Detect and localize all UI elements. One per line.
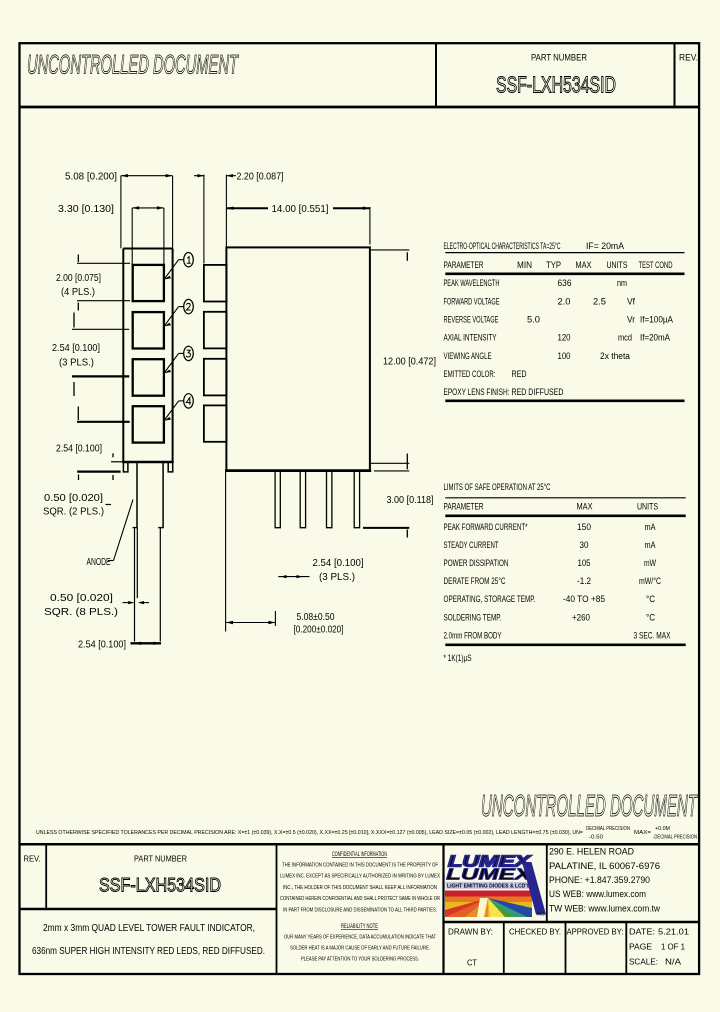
- svg-text:PALATINE, IL 60067-6976: PALATINE, IL 60067-6976: [549, 861, 660, 872]
- svg-text:APPROVED BY:: APPROVED BY:: [567, 927, 624, 937]
- svg-text:MIN: MIN: [517, 260, 532, 270]
- svg-text:ELECTRO-OPTICAL CHARACTERISTIC: ELECTRO-OPTICAL CHARACTERISTICS TA=25°C: [444, 241, 561, 251]
- svg-text:0.50 [0.020]: 0.50 [0.020]: [50, 593, 113, 604]
- svg-text:N/A: N/A: [665, 957, 681, 967]
- dimension 2.54 3 PLS side: [278, 558, 363, 583]
- dimension 2.54 [0.100] 3 PLS left: [52, 313, 129, 397]
- svg-text:290 E. HELEN ROAD: 290 E. HELEN ROAD: [549, 847, 634, 858]
- svg-text:UNITS: UNITS: [607, 260, 628, 270]
- svg-text:SCALE:: SCALE:: [629, 957, 658, 967]
- svg-text:636nm SUPER HIGH INTENSITY RED: 636nm SUPER HIGH INTENSITY RED LEDS, RED…: [32, 946, 265, 957]
- svg-text:2x theta: 2x theta: [600, 351, 630, 361]
- dimension 2.00 [0.075] 4 PLS: [56, 255, 130, 311]
- dimension 5.08 [0.200]: [65, 172, 173, 249]
- balloon 1: [164, 253, 193, 280]
- front lead narrow left: [135, 528, 138, 642]
- svg-text:2.0mm FROM BODY: 2.0mm FROM BODY: [444, 630, 502, 640]
- dimension 5.08 +/- 0.50: [226, 472, 344, 636]
- svg-text:3 SEC. MAX: 3 SEC. MAX: [634, 630, 671, 640]
- side lead 3: [327, 471, 332, 528]
- svg-text:(4 PLS.): (4 PLS.): [61, 287, 95, 298]
- svg-text:105: 105: [578, 558, 591, 568]
- svg-text:LUMEX INC. EXCEPT AS SPECIFIC: LUMEX INC. EXCEPT AS SPECIFICALLY AUTHOR…: [280, 873, 440, 879]
- svg-text:UNCONTROLLED DOCUMENT: UNCONTROLLED DOCUMENT: [27, 50, 239, 80]
- svg-text:+260: +260: [572, 612, 590, 622]
- side lens bump 3: [204, 359, 227, 396]
- svg-text:12.00 [0.472]: 12.00 [0.472]: [383, 357, 436, 368]
- svg-text:EPOXY LENS FINISH:: EPOXY LENS FINISH:: [444, 387, 510, 397]
- svg-text:5.21.01: 5.21.01: [658, 927, 689, 937]
- svg-text:TEST COND: TEST COND: [639, 260, 673, 270]
- svg-text:30: 30: [580, 540, 589, 550]
- drawn by cell: [448, 927, 493, 968]
- dimension 0.50 SQR 8 PLS: [44, 593, 149, 618]
- svg-text:AXIAL INTENSITY: AXIAL INTENSITY: [444, 333, 497, 343]
- svg-text:2mm x 3mm QUAD LEVEL TOWER FAU: 2mm x 3mm QUAD LEVEL TOWER FAULT INDICAT…: [43, 923, 255, 934]
- front view body: [122, 249, 174, 463]
- dimension 3.00 [0.118]: [363, 462, 434, 538]
- svg-text:LIGHT EMITTING DIODES & LCD'S: LIGHT EMITTING DIODES & LCD'S: [447, 884, 531, 890]
- svg-text:120: 120: [558, 333, 571, 343]
- svg-text:RELIABILITY NOTE: RELIABILITY NOTE: [341, 924, 378, 930]
- part number box: [436, 43, 698, 107]
- dimension 2.54 [0.100] lower left: [56, 407, 130, 481]
- address block: [549, 847, 660, 915]
- uncontrolled document watermark top: [27, 50, 239, 80]
- svg-text:[0.200±0.020]: [0.200±0.020]: [294, 625, 344, 636]
- svg-text:mA: mA: [645, 540, 656, 550]
- svg-text:STEADY CURRENT: STEADY CURRENT: [444, 540, 499, 550]
- reliability note: [284, 924, 437, 962]
- side lead 2: [300, 471, 305, 528]
- svg-text:3.30 [0.130]: 3.30 [0.130]: [58, 204, 114, 215]
- svg-text:0.50 [0.020]: 0.50 [0.020]: [44, 493, 103, 504]
- svg-text:2.54 [0.100]: 2.54 [0.100]: [56, 444, 102, 455]
- label 0.50 SQR 2 PLS: [43, 493, 111, 518]
- svg-text:PHONE: +1.847.359.2790: PHONE: +1.847.359.2790: [549, 875, 650, 886]
- svg-text:LIMITS OF SAFE OPERATION AT 25: LIMITS OF SAFE OPERATION AT 25°C: [444, 482, 551, 492]
- svg-text:5.0: 5.0: [527, 315, 540, 325]
- svg-text:PEAK FORWARD CURRENT*: PEAK FORWARD CURRENT*: [444, 522, 528, 532]
- svg-text:PLEASE PAY ATTENTION TO YOUR S: PLEASE PAY ATTENTION TO YOUR SOLDERING P…: [301, 956, 419, 962]
- svg-text:RED DIFFUSED: RED DIFFUSED: [512, 387, 564, 397]
- svg-text:1 OF 1: 1 OF 1: [661, 942, 685, 952]
- svg-text:UNCONTROLLED DOCUMENT: UNCONTROLLED DOCUMENT: [481, 788, 698, 823]
- svg-text:3.00 [0.118]: 3.00 [0.118]: [387, 495, 434, 506]
- lumex logo: [445, 854, 546, 918]
- table electro-optical characteristics: [444, 241, 685, 401]
- front view standoff tab left: [123, 462, 128, 472]
- svg-text:IN PART FROM DISCLOSURE AND DI: IN PART FROM DISCLOSURE AND DISSEMINATIO…: [283, 907, 437, 913]
- table limits of safe operation: [444, 482, 686, 663]
- svg-text:-40 TO +85: -40 TO +85: [563, 594, 605, 604]
- svg-text:REV.: REV.: [679, 53, 698, 63]
- front lead narrow right: [159, 528, 161, 642]
- svg-text:INC.: INC.: [537, 912, 546, 917]
- svg-text:OUR MANY YEARS OF EXPERIENCE,: OUR MANY YEARS OF EXPERIENCE, DATA ACCUM…: [284, 934, 437, 940]
- title block grid: [19, 844, 700, 974]
- svg-text:2.54 [0.100]: 2.54 [0.100]: [78, 640, 126, 651]
- svg-text:5.08 [0.200]: 5.08 [0.200]: [65, 172, 117, 183]
- dimension 14.00 [0.551]: [226, 204, 370, 245]
- confidential information note: [280, 852, 440, 913]
- svg-text:-0.50: -0.50: [589, 835, 603, 841]
- svg-text:CHECKED BY.: CHECKED BY.: [509, 927, 561, 937]
- svg-text:SSF-LXH534SID: SSF-LXH534SID: [496, 72, 616, 98]
- svg-text:THE INFORMATION CONTAINED IN T: THE INFORMATION CONTAINED IN THIS DOCUME…: [282, 862, 439, 868]
- svg-text:MAX: MAX: [577, 502, 593, 512]
- svg-text:2.00 [0.075]: 2.00 [0.075]: [56, 273, 101, 284]
- svg-text:PART NUMBER: PART NUMBER: [134, 854, 187, 864]
- svg-text:RED: RED: [512, 369, 527, 379]
- svg-text:PARAMETER: PARAMETER: [444, 260, 484, 270]
- description cell: [32, 923, 265, 957]
- svg-text:PAGE: PAGE: [629, 942, 652, 952]
- balloon 3: [164, 346, 193, 373]
- svg-text:mW/°C: mW/°C: [639, 576, 661, 586]
- side view housing: [225, 247, 371, 470]
- dimension 3.30 [0.130]: [58, 204, 164, 265]
- svg-text:PARAMETER: PARAMETER: [444, 502, 484, 512]
- LED window 3: [133, 359, 164, 396]
- svg-text:-1.2: -1.2: [577, 576, 591, 586]
- svg-text:mcd: mcd: [618, 333, 632, 343]
- LED window 4: [133, 406, 164, 442]
- balloon 2: [164, 299, 193, 326]
- svg-text:ANODE: ANODE: [87, 557, 111, 568]
- svg-text:TW WEB: www.lumex.com.tw: TW WEB: www.lumex.com.tw: [549, 903, 660, 914]
- side lens bump 1: [204, 265, 227, 302]
- svg-text:* 1K(1)µS: * 1K(1)µS: [444, 653, 472, 663]
- anode label and leader: [87, 500, 134, 568]
- svg-text:2.5: 2.5: [593, 296, 606, 306]
- svg-text:DERATE FROM 25°C: DERATE FROM 25°C: [444, 576, 506, 586]
- svg-text:°C: °C: [646, 612, 655, 622]
- side lead 4: [354, 471, 359, 528]
- svg-text:14.00 [0.551]: 14.00 [0.551]: [272, 204, 329, 215]
- svg-text:REV.: REV.: [24, 854, 41, 864]
- svg-text:POWER DISSIPATION: POWER DISSIPATION: [444, 558, 509, 568]
- svg-text:FORWARD VOLTAGE: FORWARD VOLTAGE: [444, 296, 500, 306]
- svg-text:DRAWN BY:: DRAWN BY:: [448, 927, 493, 937]
- svg-text:US WEB: www.lumex.com: US WEB: www.lumex.com: [549, 889, 646, 900]
- svg-text:mW: mW: [644, 558, 656, 568]
- svg-text:MAX: MAX: [576, 260, 592, 270]
- svg-text:nm: nm: [617, 278, 627, 288]
- svg-text:CT: CT: [467, 958, 477, 968]
- svg-text:MAX=: MAX=: [634, 830, 651, 836]
- svg-text:mA: mA: [645, 522, 656, 532]
- svg-text:IF= 20mA: IF= 20mA: [586, 241, 624, 251]
- svg-text:VIEWING ANGLE: VIEWING ANGLE: [444, 351, 492, 361]
- svg-text:+0.0M: +0.0M: [655, 826, 670, 832]
- svg-text:150: 150: [577, 522, 591, 532]
- svg-text:UNLESS OTHERWISE SPECIFIED TOL: UNLESS OTHERWISE SPECIFIED TOLERANCES PE…: [36, 830, 583, 836]
- svg-text:°C: °C: [646, 594, 655, 604]
- svg-text:(3 PLS.): (3 PLS.): [319, 572, 355, 583]
- svg-text:SQR. (2 PLS.): SQR. (2 PLS.): [43, 507, 104, 518]
- svg-text:2.0: 2.0: [558, 296, 571, 306]
- balloon 4: [164, 394, 193, 421]
- front lead wide section: [133, 463, 164, 528]
- svg-text:DECIMAL PRECISION: DECIMAL PRECISION: [586, 826, 630, 832]
- svg-text:REVERSE VOLTAGE: REVERSE VOLTAGE: [444, 315, 499, 325]
- svg-text:TYP: TYP: [546, 260, 561, 270]
- LED window 1: [133, 265, 164, 301]
- svg-text:PART NUMBER: PART NUMBER: [531, 53, 587, 63]
- svg-text:2.54 [0.100]: 2.54 [0.100]: [52, 343, 100, 354]
- svg-text:OPERATING, STORAGE TEMP.: OPERATING, STORAGE TEMP.: [444, 594, 536, 604]
- svg-text:DATE:: DATE:: [629, 927, 655, 937]
- svg-text:5.08±0.50: 5.08±0.50: [297, 612, 335, 623]
- LED window 2: [133, 312, 164, 348]
- svg-text:PEAK WAVELENGTH: PEAK WAVELENGTH: [444, 278, 500, 288]
- svg-text:SOLDERING TEMP.: SOLDERING TEMP.: [444, 612, 502, 622]
- front view standoff tab right: [168, 462, 173, 472]
- svg-text:SQR. (8 PLS.): SQR. (8 PLS.): [44, 607, 118, 618]
- tolerance note: [36, 826, 697, 841]
- svg-text:INC., THE HOLDER OF THIS DOCUM: INC., THE HOLDER OF THIS DOCUMENT SHALL …: [283, 885, 437, 891]
- svg-text:Vr: Vr: [627, 315, 635, 325]
- svg-text:2.20 [0.087]: 2.20 [0.087]: [237, 172, 284, 183]
- svg-text:If=100µA: If=100µA: [640, 315, 673, 325]
- side lens bump 2: [204, 312, 227, 349]
- svg-text:-DECIMAL PRECISION: -DECIMAL PRECISION: [653, 835, 697, 841]
- dimension 2.20 [0.087]: [194, 172, 284, 264]
- svg-text:UNITS: UNITS: [637, 502, 658, 512]
- svg-text:LUMEX: LUMEX: [446, 867, 533, 884]
- date page scale cell: [629, 927, 689, 967]
- svg-text:(3 PLS.): (3 PLS.): [59, 357, 94, 368]
- svg-text:If=20mA: If=20mA: [640, 333, 670, 343]
- svg-text:SOLDER HEAT IS A MAJOR CAUSE O: SOLDER HEAT IS A MAJOR CAUSE OF EARLY AN…: [290, 945, 430, 951]
- svg-text:CONTAINED HEREIN CONFIDENTIAL: CONTAINED HEREIN CONFIDENTIAL AND SHALL …: [280, 896, 440, 902]
- svg-text:CONFIDENTIAL INFORMATION: CONFIDENTIAL INFORMATION: [332, 852, 387, 858]
- svg-text:100: 100: [558, 351, 571, 361]
- svg-text:SSF-LXH534SID: SSF-LXH534SID: [99, 875, 221, 897]
- dimension 2.54 bottom front: [78, 640, 161, 651]
- side lens bump 4: [204, 405, 227, 441]
- part number cell: [99, 854, 221, 897]
- dimension 12.00 [0.472]: [371, 250, 436, 463]
- svg-text:EMITTED COLOR:: EMITTED COLOR:: [444, 369, 496, 379]
- svg-text:2.54 [0.100]: 2.54 [0.100]: [313, 558, 364, 569]
- svg-text:Vf: Vf: [627, 296, 635, 306]
- side lead 1: [275, 471, 280, 528]
- svg-text:636: 636: [558, 278, 572, 288]
